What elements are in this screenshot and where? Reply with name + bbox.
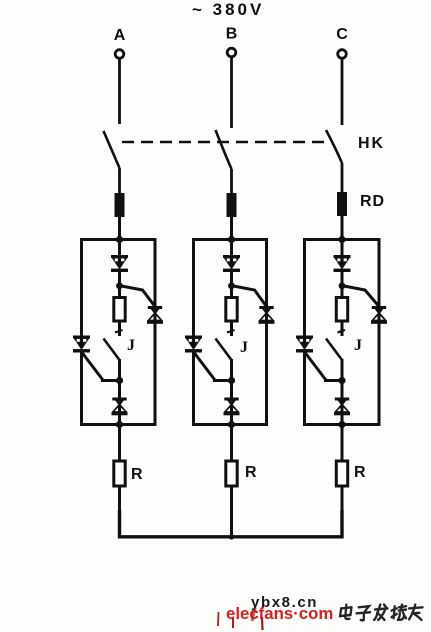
svg-text:J: J: [127, 337, 135, 354]
svg-text:R: R: [245, 464, 257, 481]
svg-text:J: J: [240, 339, 248, 356]
svg-text:B: B: [226, 26, 238, 43]
svg-text:R: R: [354, 464, 366, 481]
svg-text:elecfans·com: elecfans·com: [226, 604, 333, 623]
svg-text:A: A: [114, 27, 126, 44]
svg-text:R: R: [131, 466, 143, 483]
svg-text:HK: HK: [358, 135, 385, 152]
svg-text:J: J: [354, 337, 362, 354]
svg-text:RD: RD: [360, 193, 385, 210]
svg-text:C: C: [336, 26, 348, 43]
svg-text:~ 380V: ~ 380V: [192, 0, 264, 19]
